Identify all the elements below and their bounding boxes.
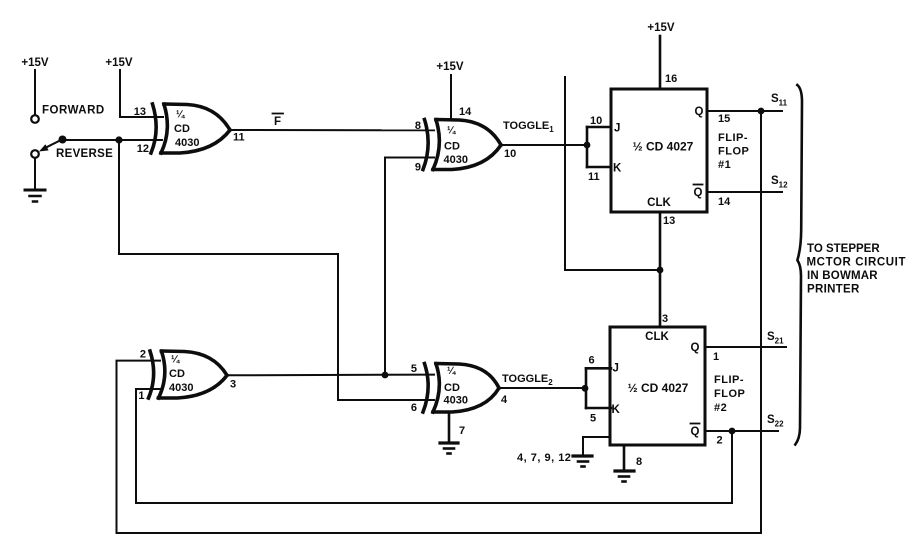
label 1/4 CD 4030 (U1b) (444, 126, 468, 167)
node +15V (U1b pin 14) label (436, 61, 464, 73)
svg-text:FLIP-: FLIP- (714, 374, 744, 386)
label CLK (FF1) (647, 197, 671, 209)
label FORWARD (42, 105, 105, 117)
wire U1c output to U1d pin 5 (227, 374, 434, 377)
wire outer feedback S11 to U1c pin 2 (117, 111, 762, 533)
label J (FF2) (613, 363, 619, 375)
label pin 6 (U1d) (411, 402, 417, 414)
svg-text:6: 6 (589, 355, 595, 367)
label pin 1 (U1c) (138, 390, 144, 402)
wire U1a output (F-bar) to U1b pin 8 (230, 129, 434, 131)
label S11 (771, 93, 788, 108)
svg-text:PRINTER: PRINTER (807, 284, 860, 296)
label S22 (767, 414, 784, 429)
node REVERSE contact (open circle) (31, 150, 39, 158)
wire to FF1 J pin 10 (587, 126, 611, 129)
label S12 (771, 175, 788, 190)
label Q-bar (FF2) (691, 426, 700, 438)
svg-text:S11: S11 (771, 93, 788, 108)
switch SW1 arm with arrowhead (39, 139, 63, 152)
svg-text:4030: 4030 (169, 382, 193, 394)
wire to FF2 J pin 6 (586, 367, 611, 370)
label pin 8 (636, 456, 642, 468)
wire J/K branch of FF2 (585, 368, 588, 408)
svg-text:13: 13 (134, 106, 146, 118)
node +15V (gate U1a pin 13) label (105, 57, 133, 69)
label pin 9 (415, 162, 421, 174)
label pin 7 (459, 425, 465, 437)
svg-text:S12: S12 (771, 175, 788, 190)
ground FF2 pin 8 (615, 471, 634, 482)
svg-text:+15V: +15V (21, 57, 49, 69)
svg-text:9: 9 (415, 162, 421, 174)
label Q (FF2) (691, 342, 700, 354)
svg-text:J: J (614, 123, 620, 135)
svg-text:S22: S22 (767, 414, 784, 429)
label pin 3 (U1c out) (230, 379, 236, 391)
svg-text:¼: ¼ (171, 355, 180, 366)
svg-text:Q: Q (691, 426, 700, 438)
label pin 5 (K FF2) (590, 413, 596, 425)
svg-text:IN BOWMAR: IN BOWMAR (807, 270, 878, 282)
label pin 3 (FF2 CLK) (662, 313, 668, 325)
wire switch line down to U1d pin 6 (119, 140, 434, 400)
svg-text:#1: #1 (718, 159, 731, 171)
label pin 1 (FF2 Q) (713, 351, 719, 363)
label 1/4 CD 4030 (U1d) (444, 366, 468, 407)
svg-text:K: K (612, 404, 621, 416)
svg-text:½ CD 4027: ½ CD 4027 (633, 140, 694, 154)
label pin 14 (FF1 Qbar) (718, 196, 731, 208)
svg-text:13: 13 (663, 215, 675, 227)
svg-text:FLOP: FLOP (718, 146, 749, 158)
ground U1d pin 7 (440, 443, 458, 454)
wire to FF1 K pin 11 (587, 166, 611, 169)
label Q (FF1) (695, 106, 704, 118)
label K (FF2) (612, 404, 621, 416)
wire +15V to FF1 pin 16 (659, 36, 662, 89)
wire inner feedback S22 to U1c pin 1 (136, 389, 732, 503)
label 1/2 CD 4027 (FF2) (628, 381, 689, 395)
svg-text:F: F (274, 116, 281, 128)
label FLIP-FLOP #1 (718, 132, 749, 171)
label pin 2 (U1c) (140, 349, 146, 361)
label 1/4 CD 4030 (U1c) (169, 355, 193, 395)
svg-text:5: 5 (411, 363, 417, 375)
xor gate U1d (1/4 CD4030) (423, 364, 499, 413)
svg-text:Q: Q (695, 106, 704, 118)
wire FF2 pin 8 to ground (623, 445, 626, 470)
label pin 16 (665, 73, 677, 85)
svg-text:3: 3 (662, 313, 668, 325)
label Q-bar (FF1) (694, 187, 703, 199)
wire switch pole to gate U1a pin 12 (62, 139, 162, 141)
junction S11 feedback tap (758, 108, 765, 115)
svg-text:Q: Q (691, 342, 700, 354)
svg-text:K: K (613, 163, 622, 175)
wire FF2 Qbar to S22 (705, 430, 778, 432)
wire clock vertical line (565, 77, 660, 270)
junction switch pole (59, 136, 67, 144)
svg-text:+15V: +15V (647, 22, 675, 34)
svg-text:¼: ¼ (447, 366, 456, 377)
label pin 10 (J) (590, 115, 602, 127)
junction TOGGLE2 to J/K branch (582, 385, 589, 392)
svg-text:MCTOR CIRCUIT: MCTOR CIRCUIT (807, 257, 907, 269)
svg-text:4, 7, 9, 12: 4, 7, 9, 12 (517, 452, 571, 464)
label TO STEPPER MOTOR CIRCUIT IN BOWMAR PRINTER (807, 243, 907, 296)
svg-text:¼: ¼ (176, 110, 185, 121)
label pin 12 (137, 143, 149, 155)
label F-bar (274, 116, 281, 128)
label pin 14 (459, 106, 472, 118)
node FORWARD contact (open circle) (31, 115, 39, 123)
wire U1b pin 9 from node B vertical (385, 158, 434, 376)
label pin 15 (718, 113, 730, 125)
label 1/2 CD 4027 (FF1) (633, 140, 694, 154)
svg-text:TO STEPPER: TO STEPPER (807, 243, 880, 255)
svg-text:4030: 4030 (175, 137, 199, 149)
svg-text:+15V: +15V (436, 61, 464, 73)
flip-flop U3 FF2 (1/2 CD4027) box (610, 327, 705, 445)
label pin 8 (415, 120, 421, 132)
label CLK (FF2) (645, 331, 669, 343)
wire +15V to U1b pin 14 (450, 75, 452, 120)
junction TOGGLE1 to J/K branch (584, 142, 591, 149)
svg-text:CD: CD (174, 123, 190, 135)
junction node B (pin 9 tap) (382, 372, 389, 379)
svg-text:CD: CD (169, 368, 185, 380)
svg-text:CD: CD (444, 141, 460, 153)
svg-text:2: 2 (140, 349, 146, 361)
svg-text:7: 7 (459, 425, 465, 437)
svg-text:+15V: +15V (105, 57, 133, 69)
wire U1d output TOGGLE2 to FF2 J/K (499, 387, 586, 389)
label TOGGLE1 (503, 120, 554, 134)
junction S22 feedback tap (729, 428, 736, 435)
wire J/K branch of FF1 (586, 127, 589, 167)
svg-text:4030: 4030 (444, 154, 468, 166)
svg-text:6: 6 (411, 402, 417, 414)
label pin 13 (FF1 CLK) (663, 215, 675, 227)
svg-text:#2: #2 (714, 402, 727, 414)
junction node A (switch line tap) (115, 136, 122, 143)
svg-text:FLIP-: FLIP- (718, 132, 748, 144)
xor gate U1b (1/4 CD4030) (423, 120, 501, 170)
svg-text:REVERSE: REVERSE (56, 148, 113, 160)
wire FF1 CLK pin 13 down to FF2 CLK pin 3 (659, 212, 662, 327)
label J (FF1) (614, 123, 620, 135)
wire +15V to U1a pin 13 (120, 70, 163, 117)
label REVERSE (56, 148, 113, 160)
wire FF1 Q to S11 (707, 110, 782, 112)
svg-text:Q: Q (694, 187, 703, 199)
wire to FF2 K pin 5 (586, 407, 611, 410)
svg-text:10: 10 (504, 148, 516, 160)
label pin 10 (504, 148, 516, 160)
junction CLK node (657, 267, 664, 274)
label pin 5 (U1d) (411, 363, 417, 375)
svg-text:TOGGLE1: TOGGLE1 (503, 120, 554, 134)
label K (FF1) (613, 163, 622, 175)
label 1/4 CD 4030 (U1a) (174, 110, 199, 150)
svg-text:½ CD 4027: ½ CD 4027 (628, 381, 689, 395)
svg-text:5: 5 (590, 413, 596, 425)
svg-text:4030: 4030 (444, 395, 468, 407)
xor gate U1c (1/4 CD4030) (149, 351, 228, 398)
wire +15V to FORWARD contact (34, 70, 36, 114)
label pin 6 (J FF2) (589, 355, 595, 367)
wire FF1 Qbar to S12 (707, 191, 782, 193)
svg-text:11: 11 (233, 132, 245, 144)
wire U1d pin 7 to ground (448, 412, 451, 442)
label pin 4 (U1d out) (501, 394, 508, 406)
svg-text:8: 8 (636, 456, 642, 468)
label pin 11 (K) (588, 171, 600, 183)
label pin 13 (134, 106, 146, 118)
svg-text:8: 8 (415, 120, 421, 132)
brace bracket for stepper outputs (795, 85, 802, 445)
label S21 (767, 331, 784, 346)
svg-text:3: 3 (230, 379, 236, 391)
ground FF2 pins 4,7,9,12 (573, 456, 592, 467)
wire FF2 pins 4,7,9,12 to ground (583, 437, 610, 455)
xor gate U1a (1/4 CD4030) (151, 104, 230, 153)
svg-text:FORWARD: FORWARD (42, 105, 105, 117)
ground below REVERSE contact (25, 158, 45, 202)
svg-text:S21: S21 (767, 331, 784, 346)
svg-text:2: 2 (717, 435, 723, 447)
svg-text:J: J (613, 363, 619, 375)
svg-text:16: 16 (665, 73, 677, 85)
svg-text:1: 1 (713, 351, 719, 363)
node +15V (FF1 pin 16) label (647, 22, 675, 34)
label 4, 7, 9, 12 (517, 452, 571, 464)
svg-text:15: 15 (718, 113, 730, 125)
svg-text:CD: CD (444, 382, 460, 394)
node +15V (switch supply) label (21, 57, 49, 69)
svg-text:CLK: CLK (645, 331, 669, 343)
svg-text:¼: ¼ (447, 126, 456, 137)
svg-text:11: 11 (588, 171, 600, 183)
svg-text:FLOP: FLOP (714, 388, 745, 400)
svg-text:4: 4 (501, 394, 508, 406)
svg-text:10: 10 (590, 115, 602, 127)
label TOGGLE2 (502, 373, 553, 387)
label FLIP-FLOP #2 (714, 374, 745, 414)
svg-text:14: 14 (459, 106, 472, 118)
wire U1b output TOGGLE1 to FF1 J/K (501, 144, 587, 146)
label pin 2 (FF2 Qbar) (717, 435, 723, 447)
svg-text:12: 12 (137, 143, 149, 155)
svg-text:CLK: CLK (647, 197, 671, 209)
svg-text:TOGGLE2: TOGGLE2 (502, 373, 553, 387)
label pin 11 (233, 132, 245, 144)
flip-flop U2 FF1 (1/2 CD4027) box (611, 89, 707, 212)
wire FF2 Q to S21 (705, 346, 786, 348)
svg-text:14: 14 (718, 196, 731, 208)
svg-text:1: 1 (138, 390, 144, 402)
